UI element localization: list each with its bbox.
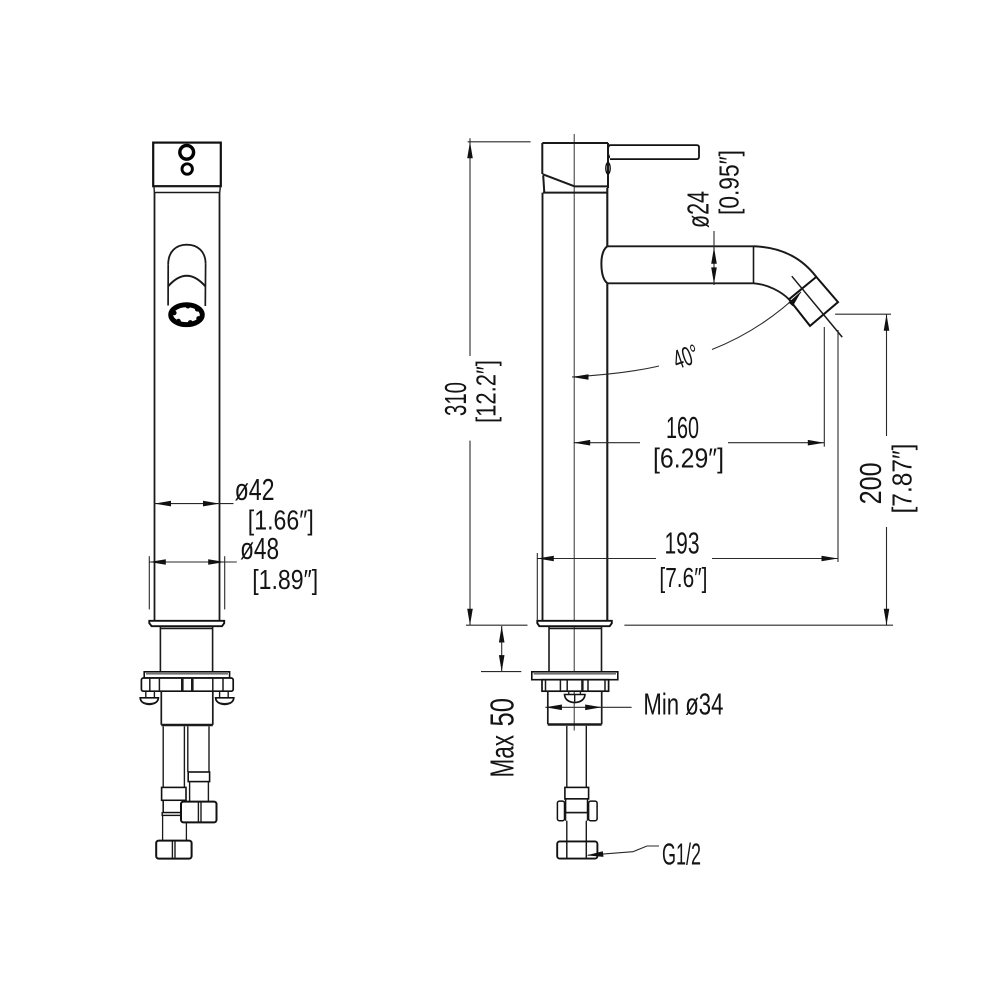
hose fitting (side) (565, 787, 589, 799)
svg-text:Max: Max (485, 735, 522, 778)
counter / mounting surface line (466, 624, 528, 626)
svg-text:G1/2: G1/2 (662, 838, 701, 872)
indicator small circle on cap (182, 164, 192, 174)
svg-text:ø24: ø24 (682, 191, 716, 228)
faucet column (side) left edge (542, 193, 544, 621)
dimension 310 [12.2"] (439, 138, 531, 625)
dimension Min phi34 (545, 688, 723, 722)
faucet body (front) left edge (154, 193, 156, 621)
svg-text:[7.87″]: [7.87″] (887, 444, 918, 514)
svg-text:ø42: ø42 (235, 473, 275, 507)
base flange (front) (149, 621, 224, 626)
svg-text:193: 193 (665, 527, 700, 561)
dimension 160 [6.29"] (574, 327, 825, 474)
faucet cap (front) (153, 143, 221, 187)
left supply hose (front) (163, 726, 184, 788)
right hose lower tube (190, 782, 209, 802)
left hose fitting (162, 787, 186, 800)
mounting plate (front) (144, 672, 229, 678)
left hose lower tube (163, 815, 187, 840)
aerator teeth (172, 304, 201, 325)
mounting plate (side) (532, 672, 618, 680)
shank (side) (549, 626, 602, 672)
svg-text:Min ø34: Min ø34 (643, 688, 723, 722)
spout bend seam (753, 246, 755, 283)
svg-text:[6.29″]: [6.29″] (653, 443, 724, 474)
shank (front) (160, 626, 212, 672)
svg-text:200: 200 (854, 462, 888, 504)
left stud with dome washer (front) (140, 691, 158, 704)
right stud with dome washer (front) (216, 691, 234, 704)
dimension Max 50 (481, 626, 522, 778)
nozzle axis line (792, 276, 842, 337)
supply hose (side) (567, 726, 587, 788)
dimension 40 degrees arc (572, 292, 801, 380)
dimension phi48 (149, 532, 318, 609)
valve block (front) (161, 691, 213, 725)
dimension 200 [7.87"] (835, 314, 917, 625)
center screw below nut (side) (565, 691, 586, 702)
indicator big circle on cap (180, 145, 194, 159)
cap band (front) (154, 186, 220, 192)
hose hex nut (side) (557, 799, 597, 821)
svg-text:310: 310 (439, 382, 473, 416)
spout outlet (front): upper arc (168, 245, 205, 265)
spout outlet (front): mid seam arc (168, 276, 206, 287)
base flange (side) (537, 621, 612, 626)
right hose end nut (front) (181, 802, 217, 823)
dimension 193 [7.6"] (537, 330, 838, 621)
svg-text:160: 160 (666, 411, 699, 445)
handle joint on cap (608, 144, 612, 159)
svg-text:[7.6″]: [7.6″] (659, 562, 707, 593)
right hose fitting (188, 772, 209, 782)
svg-text:50: 50 (485, 698, 522, 727)
spout outer bend arc (754, 246, 817, 277)
mounting nut row (front) (141, 678, 233, 691)
right supply hose (front) (188, 726, 209, 772)
spout inner bend arc (754, 283, 789, 299)
G1/2 label and leader (587, 838, 702, 872)
svg-text:[1.89″]: [1.89″] (252, 564, 318, 595)
spout nozzle (789, 277, 838, 326)
handle lever (610, 145, 699, 159)
svg-text:[0.95″]: [0.95″] (714, 150, 745, 215)
aerator end face (front): thick ellipse ring (171, 305, 203, 325)
faucet body (front) right edge (219, 193, 221, 621)
faucet column (side) right edge lower (606, 283, 608, 621)
faucet column (side) right edge upper (606, 188, 608, 246)
mounting nut (side) (542, 680, 609, 692)
spout outlet (front): side edges (167, 264, 169, 305)
G1/2 end nut (side) (557, 841, 597, 858)
spout tube bottom line (607, 282, 754, 284)
valve block (side) (548, 691, 602, 724)
svg-text:[1.66″]: [1.66″] (248, 505, 314, 536)
spout socket bulge (601, 246, 607, 283)
left hose end nut G1/2 (front) (156, 841, 191, 859)
hose lower tube (side) (567, 821, 587, 842)
spout tube top line (607, 245, 753, 247)
dimension phi42 (155, 473, 314, 536)
center line of column (573, 134, 575, 731)
svg-text:[12.2″]: [12.2″] (471, 360, 502, 423)
faucet cap (side) (542, 143, 608, 193)
dimension phi24 [0.95"] (682, 150, 745, 285)
svg-text:ø48: ø48 (240, 532, 279, 566)
